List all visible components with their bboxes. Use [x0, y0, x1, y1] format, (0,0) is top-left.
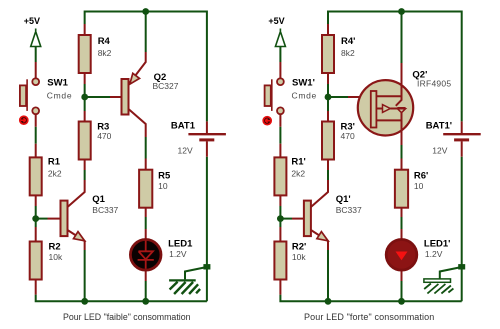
svg-text:+5V: +5V	[268, 16, 284, 26]
svg-text:470: 470	[341, 131, 355, 141]
svg-text:10k: 10k	[49, 252, 63, 262]
svg-text:LED1': LED1'	[424, 239, 451, 250]
svg-text:SW1': SW1'	[292, 78, 315, 89]
svg-text:10k: 10k	[292, 252, 306, 262]
svg-text:12V: 12V	[178, 146, 193, 156]
svg-text:R2': R2'	[292, 241, 306, 252]
svg-text:Q1: Q1	[92, 194, 105, 205]
svg-text:Pour LED "faible" consommation: Pour LED "faible" consommation	[63, 312, 191, 322]
svg-text:10: 10	[158, 181, 168, 191]
svg-text:12V: 12V	[432, 146, 447, 156]
svg-text:LED1: LED1	[168, 239, 193, 250]
svg-text:R1: R1	[48, 157, 61, 168]
svg-text:R1': R1'	[291, 157, 305, 168]
svg-text:8k2: 8k2	[341, 48, 355, 58]
svg-text:1.2V: 1.2V	[169, 249, 187, 259]
svg-text:Q1': Q1'	[336, 194, 351, 205]
svg-text:10: 10	[414, 181, 424, 191]
svg-text:470: 470	[97, 131, 111, 141]
svg-text:BC337: BC337	[92, 205, 118, 215]
svg-text:1.2V: 1.2V	[425, 249, 443, 259]
svg-text:2k2: 2k2	[291, 169, 305, 179]
svg-text:R4': R4'	[341, 36, 355, 47]
svg-text:Pour LED "forte" consommation: Pour LED "forte" consommation	[304, 312, 434, 322]
svg-text:R2: R2	[49, 241, 61, 252]
svg-text:BC327: BC327	[153, 81, 179, 91]
svg-text:BAT1': BAT1'	[426, 121, 452, 132]
svg-text:R4: R4	[98, 36, 111, 47]
svg-text:BAT1: BAT1	[171, 121, 196, 132]
svg-text:BC337: BC337	[336, 205, 362, 215]
svg-text:2k2: 2k2	[48, 169, 62, 179]
svg-text:+5V: +5V	[24, 16, 40, 26]
svg-text:8k2: 8k2	[98, 48, 112, 58]
svg-text:SW1: SW1	[47, 78, 68, 89]
svg-text:IRF4905: IRF4905	[417, 79, 451, 89]
svg-text:Cmde: Cmde	[47, 91, 72, 101]
svg-text:Cmde: Cmde	[292, 91, 317, 101]
